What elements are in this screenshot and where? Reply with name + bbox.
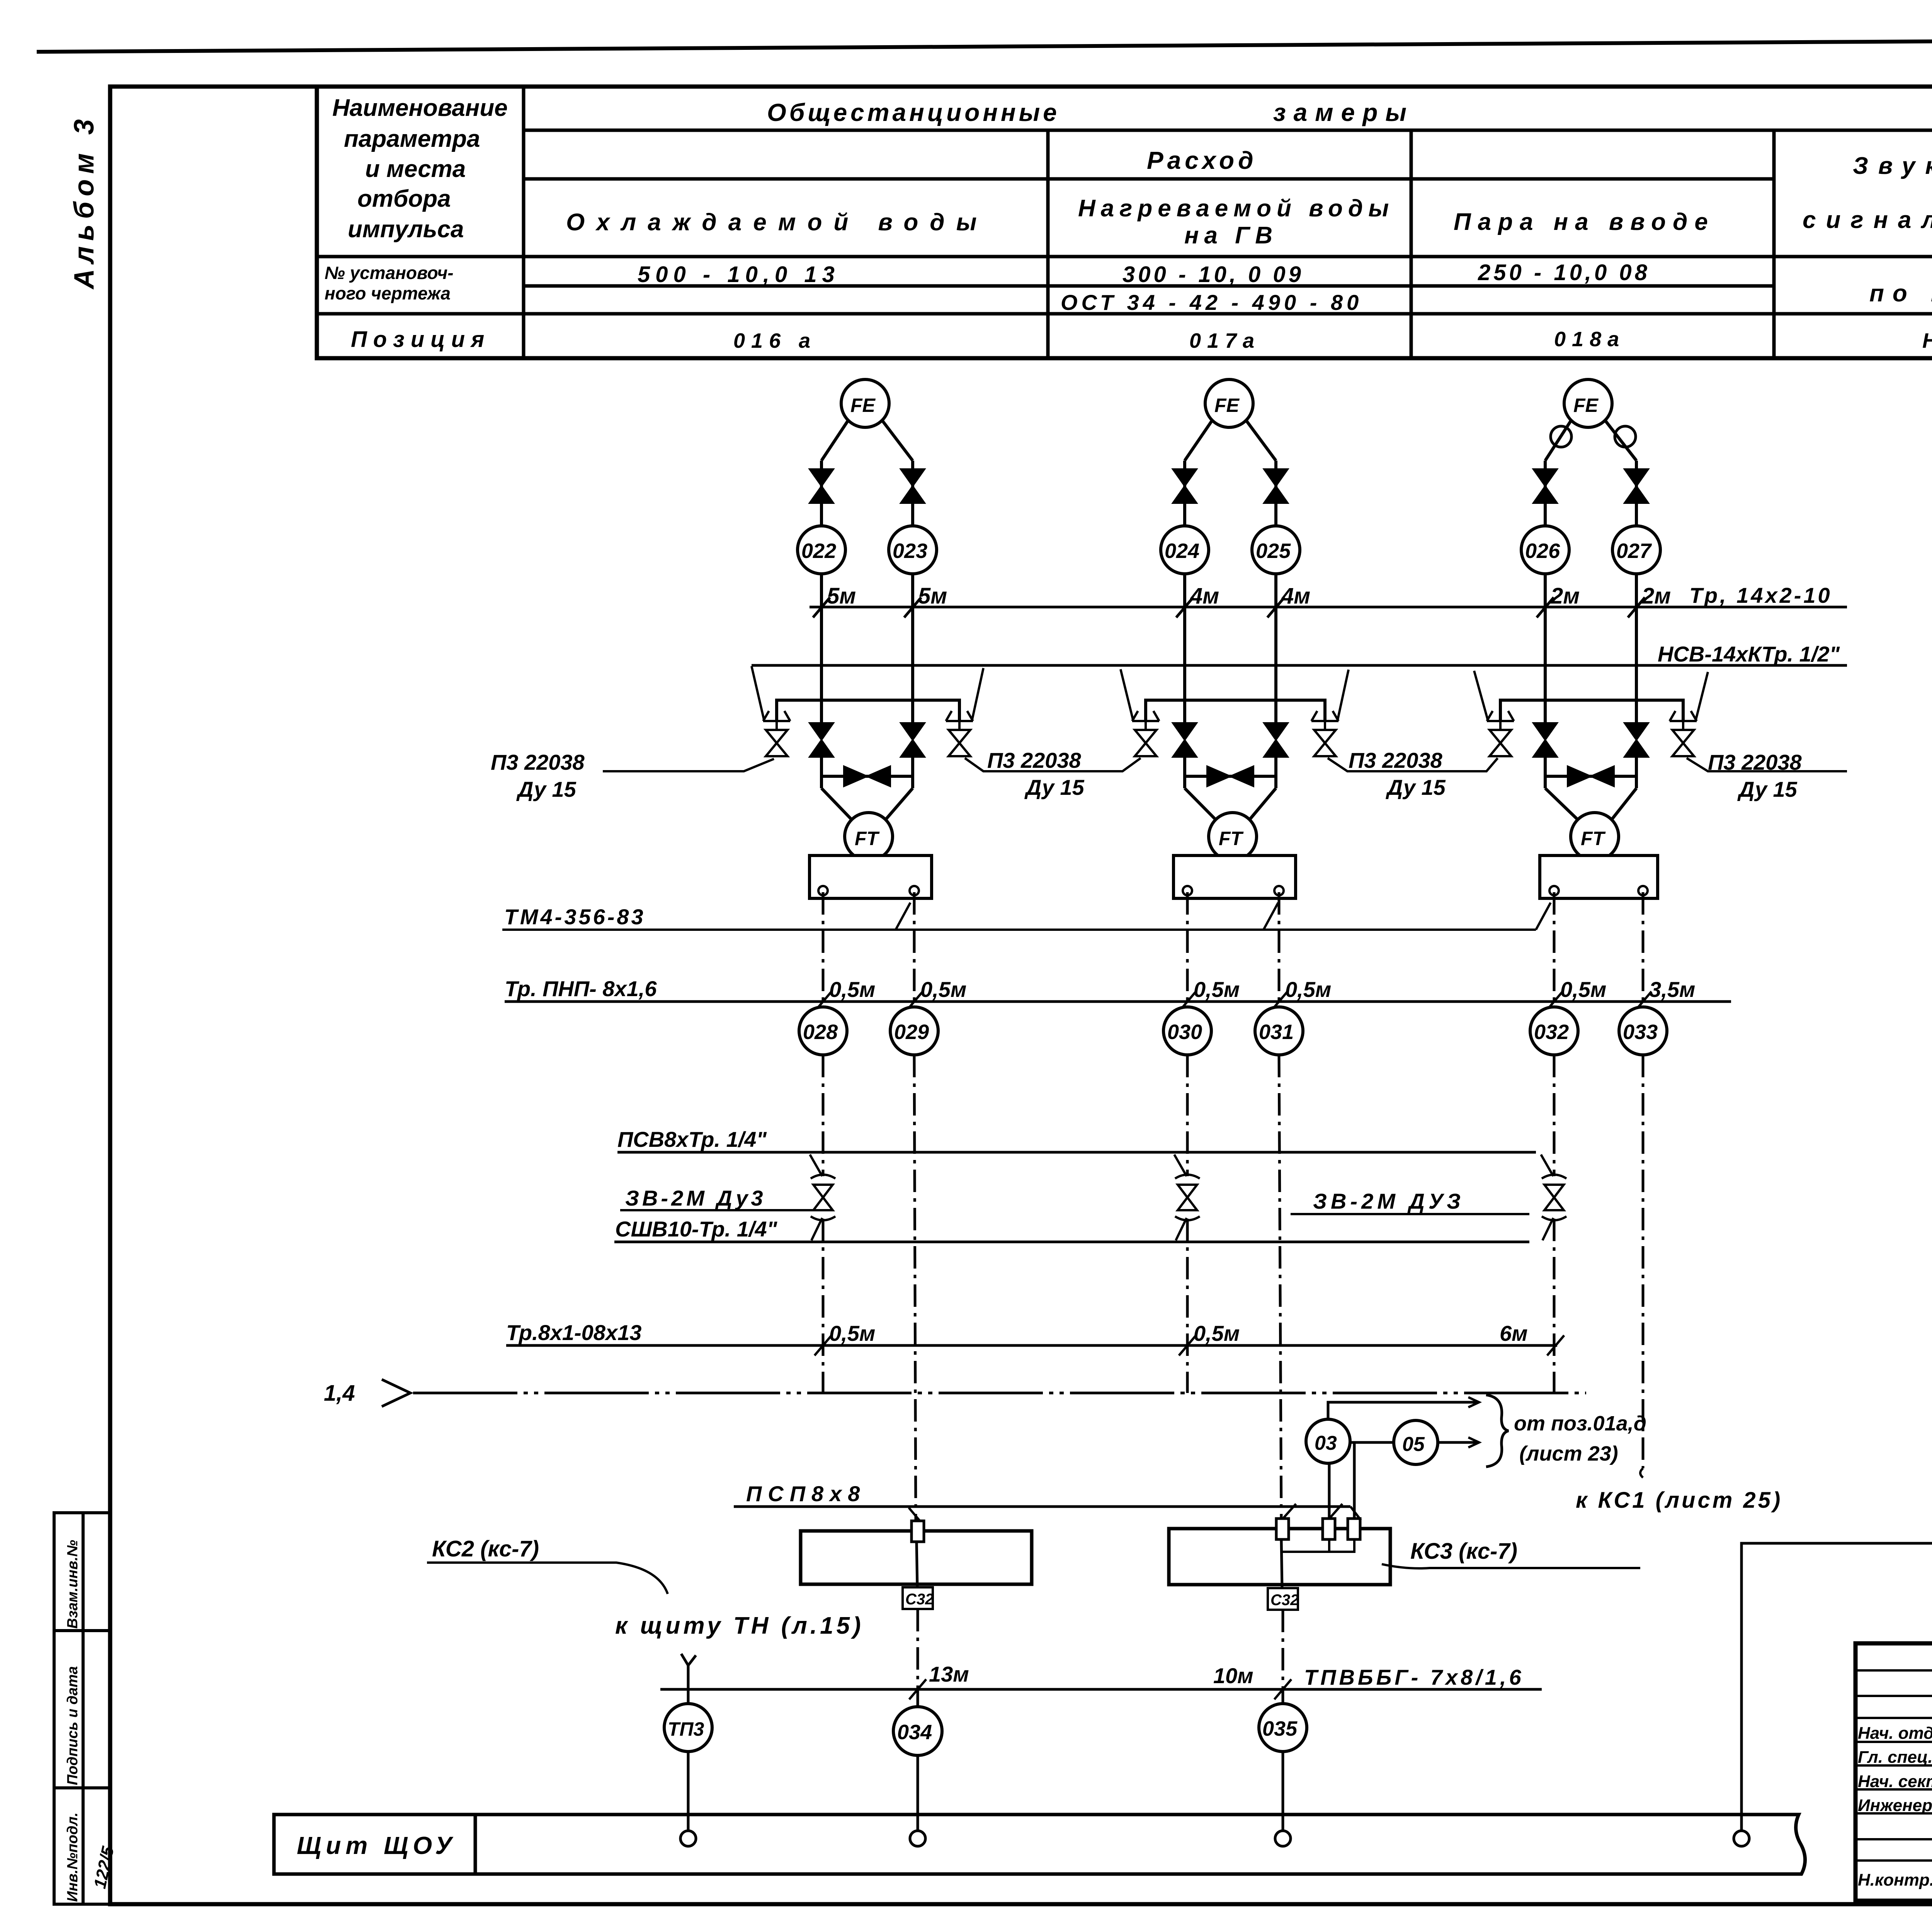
scan top edge line <box>37 37 1932 52</box>
impulse valve P3-22038 right unit 1 <box>946 711 973 721</box>
svg-text:FE: FE <box>1573 395 1599 416</box>
svg-text:025: 025 <box>1256 539 1291 563</box>
crossing tick on line L1 at 3302 <box>1267 597 1284 617</box>
wire above valve 2130 <box>822 1055 825 1176</box>
flow transmitter FT unit 2 <box>1209 813 1257 861</box>
wire left branch middle unit 2 <box>1183 574 1186 724</box>
tag S32 under KS2 <box>903 1587 933 1609</box>
svg-text:05: 05 <box>1402 1433 1425 1456</box>
svg-text:Наименование: Наименование <box>332 95 508 121</box>
instrument circle TP3 <box>664 1704 712 1752</box>
wire left branch middle unit 1 <box>820 574 823 724</box>
wire left branch lower unit 2 <box>1183 757 1186 788</box>
wire 029 down to KS2 terminal <box>914 1055 916 1522</box>
transmitter terminal box unit 3 <box>1540 855 1658 898</box>
instrument circle 05 <box>1394 1420 1438 1464</box>
squiggle end of 033 wire <box>1640 1468 1643 1478</box>
svg-text:ного чертежа: ного чертежа <box>325 283 451 303</box>
cable line PSP8x8 <box>734 1505 1350 1508</box>
wire 034 to shchit <box>917 1755 919 1831</box>
wire from box to circle 031 <box>1278 892 1281 1007</box>
svg-text:Пара на вводе: Пара на вводе <box>1454 209 1715 235</box>
terminal circle 035 on panel <box>1275 1831 1291 1846</box>
svg-text:FT: FT <box>1219 828 1244 849</box>
instrument circle 031 <box>1255 1007 1303 1055</box>
wire FE to left branch unit 3 <box>1545 420 1571 461</box>
flow element FE unit 2 <box>1205 379 1253 427</box>
lower shutoff valve on left branch unit 3 <box>1533 723 1557 757</box>
instrument circle 026 <box>1521 526 1569 574</box>
terminal circle TP3 on panel <box>680 1831 696 1846</box>
crossing tick on Tr.8x1 line at 2130 <box>815 1335 832 1355</box>
equalizer line unit 3 <box>1545 775 1636 778</box>
svg-text:0,5м: 0,5м <box>1194 977 1240 1002</box>
crossing tick on Tr.PNP line at 3310 <box>1270 992 1287 1012</box>
flow element FE unit 3 <box>1564 379 1612 427</box>
crossing tick 13m <box>909 1679 926 1699</box>
crossing tick on line L1 at 3999 <box>1537 597 1554 617</box>
svg-text:Тр, 14х2-10: Тр, 14х2-10 <box>1689 583 1832 607</box>
wire from box to circle 030 <box>1186 892 1189 1007</box>
instrument circle 022 <box>798 526 845 574</box>
valve on right branch unit 2 <box>1264 469 1288 503</box>
curly bracket <box>1486 1395 1509 1467</box>
svg-text:Общестанционные: Общестанционные <box>767 99 1060 126</box>
arrow to shchit TN <box>681 1654 696 1704</box>
svg-text:016 а: 016 а <box>733 329 816 352</box>
svg-text:022: 022 <box>801 539 836 563</box>
svg-text:импульса: импульса <box>348 216 464 243</box>
svg-text:ТПВББГ- 7х8/1,6: ТПВББГ- 7х8/1,6 <box>1304 1665 1524 1689</box>
wire 035 to shchit <box>1282 1752 1284 1831</box>
instrument circle 024 <box>1161 526 1209 574</box>
wire FE to right branch unit 1 <box>882 420 913 461</box>
svg-text:Нач. отд.: Нач. отд. <box>1858 1724 1932 1743</box>
svg-text:ЗВ-2М Ду3: ЗВ-2М Ду3 <box>625 1186 766 1210</box>
svg-text:Ду 15: Ду 15 <box>1386 775 1446 799</box>
wire route to panel <box>1742 1543 1932 1831</box>
lower shutoff valve on left branch unit 2 <box>1173 723 1197 757</box>
svg-text:4м: 4м <box>1281 583 1310 609</box>
lower shutoff valve on right branch unit 2 <box>1264 723 1288 757</box>
svg-text:сигнализация: сигнализация <box>1803 207 1932 233</box>
sampling valve ZV-2M at 3073 <box>1178 1185 1197 1210</box>
drop wire from NSV collector to valve v1L <box>752 666 764 719</box>
valve on left branch unit 2 <box>1173 469 1197 503</box>
equalizer line unit 2 <box>1185 775 1276 778</box>
svg-text:2м: 2м <box>1550 583 1580 609</box>
crossing tick on line L1 at 2126 <box>813 597 830 617</box>
wire TP3 to shchit <box>687 1752 690 1831</box>
svg-text:13м: 13м <box>929 1662 969 1686</box>
svg-text:замеры: замеры <box>1273 99 1414 126</box>
wire converge left to FT unit 1 <box>821 788 852 820</box>
drop wire from NSV collector to valve v3L <box>1474 671 1488 719</box>
svg-text:Нач. сект.: Нач. сект. <box>1858 1772 1932 1791</box>
drop wire from NSV collector to valve v2R <box>1338 670 1349 719</box>
svg-text:от поз.01а,д: от поз.01а,д <box>1514 1412 1646 1435</box>
svg-text:300 - 10, 0 09: 300 - 10, 0 09 <box>1122 262 1304 287</box>
equalizer bowtie valve unit 1 <box>844 766 890 786</box>
wire left branch lower unit 3 <box>1544 757 1547 788</box>
svg-text:НА1: НА1 <box>1922 329 1932 352</box>
svg-text:Ду 15: Ду 15 <box>1024 775 1085 799</box>
instrument circle 033 <box>1619 1007 1667 1055</box>
drop wire from NSV collector to valve v3R <box>1696 672 1708 719</box>
instrument circle 025 <box>1252 526 1300 574</box>
crossing tick on line L1 at 2362 <box>904 597 921 617</box>
svg-text:Инв.№подл.: Инв.№подл. <box>65 1813 81 1902</box>
diagonal jog into valve at 2130 <box>810 1155 822 1176</box>
svg-text:на ГВ: на ГВ <box>1184 222 1278 249</box>
wire right branch middle unit 2 <box>1274 574 1277 724</box>
trunk line 1,4 <box>413 1392 1586 1395</box>
wire 033 down to k KS1 <box>1642 1055 1645 1468</box>
impulse valve P3-22038 left unit 2 <box>1132 711 1159 721</box>
equalizer bowtie valve unit 3 <box>1568 766 1614 786</box>
svg-text:1,4: 1,4 <box>324 1381 355 1406</box>
svg-text:3,5м: 3,5м <box>1649 977 1695 1002</box>
svg-text:031: 031 <box>1259 1020 1294 1044</box>
svg-text:С32: С32 <box>1270 1592 1299 1609</box>
junction box KS2 <box>801 1531 1032 1584</box>
svg-text:(лист 23): (лист 23) <box>1519 1442 1618 1465</box>
svg-text:ТП3: ТП3 <box>668 1718 704 1740</box>
svg-text:Взам.инв.№: Взам.инв.№ <box>65 1540 81 1629</box>
wire converge right to FT unit 2 <box>1250 788 1276 820</box>
wire FE to right branch unit 2 <box>1246 420 1276 461</box>
cable line PSV8xTr.1/4 <box>617 1151 1536 1154</box>
svg-text:0,5м: 0,5м <box>1560 977 1606 1002</box>
svg-text:4м: 4м <box>1190 583 1219 609</box>
svg-text:03: 03 <box>1315 1432 1337 1454</box>
wire FE to left branch unit 2 <box>1185 420 1212 461</box>
equalizer line unit 1 <box>821 775 913 778</box>
svg-text:Тр.8х1-08х13: Тр.8х1-08х13 <box>506 1320 641 1345</box>
impulse valve P3-22038 right unit 2 <box>1311 711 1338 721</box>
wire S32 KS3 down to 035 <box>1282 1610 1284 1704</box>
svg-text:ТМ4-356-83: ТМ4-356-83 <box>504 905 646 929</box>
diagonal jog into valve at 4022 <box>1541 1155 1553 1176</box>
impulse valve P3-22038 left unit 3 <box>1487 711 1514 721</box>
svg-text:0,5м: 0,5м <box>829 977 875 1002</box>
wire below valve 3073 <box>1186 1219 1189 1393</box>
svg-text:5м: 5м <box>918 583 947 609</box>
svg-text:FE: FE <box>1214 395 1240 416</box>
wire left branch upper unit 2 <box>1183 461 1186 526</box>
svg-text:0,5м: 0,5м <box>1194 1321 1240 1345</box>
svg-text:Подпись и дата: Подпись и дата <box>65 1666 81 1785</box>
svg-text:С32: С32 <box>905 1591 934 1608</box>
crossing tick on Tr.8x1 line at 3073 <box>1179 1335 1196 1355</box>
svg-text:028: 028 <box>803 1020 838 1044</box>
cable line 13m 10m <box>660 1688 1542 1691</box>
flow transmitter FT unit 1 <box>845 813 893 861</box>
svg-text:017а: 017а <box>1189 329 1260 352</box>
instrument circle 023 <box>889 526 937 574</box>
drop wire from NSV collector to valve v2L <box>1121 669 1133 719</box>
leader tick to box 2 <box>1264 903 1278 930</box>
instrument circle 027 <box>1612 526 1660 574</box>
svg-text:023: 023 <box>893 539 927 563</box>
terminal rect 1 on KS3 <box>1276 1519 1289 1539</box>
junction box KS3 <box>1169 1529 1390 1585</box>
measurement table <box>317 87 1932 358</box>
wire right branch lower unit 3 <box>1635 757 1638 788</box>
wire right branch middle unit 3 <box>1635 574 1638 724</box>
svg-text:Расход: Расход <box>1147 146 1257 174</box>
drop wire from NSV collector to valve v1R <box>972 668 983 719</box>
svg-text:FT: FT <box>855 828 880 849</box>
svg-text:КС3 (кс-7): КС3 (кс-7) <box>1410 1539 1517 1564</box>
svg-text:0,5м: 0,5м <box>920 977 966 1002</box>
svg-text:Инженер: Инженер <box>1858 1796 1932 1815</box>
collector line NSV-14xKTr <box>752 664 1847 667</box>
terminal circle right in box unit 2 <box>1274 886 1284 895</box>
svg-text:параметра: параметра <box>344 126 480 152</box>
leader tick to box 1 <box>896 903 910 930</box>
diagonal tick KS3 terminal 2 <box>1330 1504 1342 1518</box>
wire from box to circle 028 <box>822 892 825 1007</box>
wire 03 to 05 <box>1350 1441 1394 1444</box>
svg-text:FE: FE <box>850 395 876 416</box>
flow element FE unit 1 <box>841 379 889 427</box>
terminal circle 034 on panel <box>910 1831 925 1846</box>
sampling valve ZV-2M at 4022 <box>1544 1185 1564 1210</box>
pi collector line unit 3 <box>1500 700 1683 721</box>
wire below valve 2130 <box>822 1219 825 1393</box>
pi collector line unit 1 <box>777 700 959 721</box>
panel box Shchit SchOU <box>274 1815 1805 1874</box>
svg-text:НСВ-14хКТр. 1/2": НСВ-14хКТр. 1/2" <box>1658 642 1840 666</box>
crossing tick on line L1 at 4235 <box>1628 597 1645 617</box>
svg-text:6м: 6м <box>1500 1321 1528 1345</box>
wire converge left to FT unit 2 <box>1185 788 1216 820</box>
wire above valve 4022 <box>1553 1055 1556 1176</box>
chevron on 1,4 line <box>382 1379 410 1406</box>
wire 031 down to KS3 terminal <box>1279 1055 1281 1519</box>
terminal circle left in box unit 2 <box>1183 886 1192 895</box>
svg-text:Гл. спец.: Гл. спец. <box>1858 1748 1932 1767</box>
svg-text:10м: 10м <box>1213 1663 1253 1688</box>
cable line Tr.PNP-8x1,6 <box>505 1000 1731 1003</box>
crossing tick on Tr.8x1 line at 4026 <box>1547 1335 1564 1355</box>
svg-text:018а: 018а <box>1554 328 1625 351</box>
transmitter terminal box unit 2 <box>1173 855 1296 898</box>
cable line Tr.8x1-08x13 <box>506 1344 1557 1347</box>
terminal rect 2 on KS3 <box>1323 1519 1335 1539</box>
wire from box to circle 033 <box>1642 892 1645 1007</box>
svg-text:Позиция: Позиция <box>351 327 490 352</box>
left margin stamp table <box>54 1513 110 1904</box>
diagonal tick KS3 terminal 1 <box>1284 1504 1296 1518</box>
svg-text:ЗВ-2М ДУЗ: ЗВ-2М ДУЗ <box>1313 1189 1464 1213</box>
svg-text:ПСП8х8: ПСП8х8 <box>746 1481 866 1506</box>
valve on right branch unit 3 <box>1624 469 1648 503</box>
terminal circle 522 on panel <box>1734 1831 1749 1846</box>
lower shutoff valve on left branch unit 1 <box>810 723 833 757</box>
cable line SShV10-Tr.1/4 <box>614 1241 1529 1243</box>
wire left branch middle unit 3 <box>1544 574 1547 724</box>
svg-text:027: 027 <box>1616 539 1652 563</box>
svg-text:№ установоч-: № установоч- <box>325 263 454 283</box>
crossing tick on Tr.PNP line at 4022 <box>1546 992 1563 1012</box>
diagonal into KS2 terminal <box>909 1508 921 1522</box>
svg-text:Тр. ПНП- 8х1,6: Тр. ПНП- 8х1,6 <box>505 976 657 1001</box>
wire FE to left branch unit 1 <box>821 420 848 461</box>
terminal circle right in box unit 1 <box>910 886 919 895</box>
wire 03 down to terminal <box>1328 1463 1331 1519</box>
impulse valve P3-22038 right unit 3 <box>1670 711 1697 721</box>
leader tick to box 3 <box>1536 903 1551 930</box>
crossing tick on Tr.PNP line at 4252 <box>1634 992 1651 1012</box>
svg-text:П3 22038: П3 22038 <box>987 748 1082 772</box>
svg-text:5м: 5м <box>827 583 856 609</box>
pi collector line unit 2 <box>1146 700 1325 721</box>
leader line TM4-356-83 under boxes <box>502 929 1536 931</box>
svg-text:П3 22038: П3 22038 <box>1349 748 1443 772</box>
svg-text:024: 024 <box>1165 539 1199 563</box>
instrument circle 030 <box>1163 1007 1211 1055</box>
svg-text:032: 032 <box>1534 1020 1569 1044</box>
svg-text:СШВ10-Тр. 1/4": СШВ10-Тр. 1/4" <box>615 1217 778 1241</box>
crossing tick on Tr.PNP line at 2130 <box>815 992 832 1012</box>
crossing tick on Tr.PNP line at 3073 <box>1179 992 1196 1012</box>
equalizer bowtie valve unit 2 <box>1207 766 1253 786</box>
tag S32 under KS3 <box>1268 1588 1298 1610</box>
svg-text:Ду 15: Ду 15 <box>516 777 577 801</box>
flow transmitter FT unit 3 <box>1571 813 1619 861</box>
instrument circle 03 <box>1306 1419 1350 1463</box>
diagonal into KS3 terminal 3 <box>1350 1507 1361 1520</box>
main title block <box>1855 1643 1932 1901</box>
wire converge left to FT unit 3 <box>1545 788 1578 820</box>
svg-text:033: 033 <box>1623 1020 1658 1044</box>
terminal circle right in box unit 3 <box>1638 886 1648 895</box>
wire left branch lower unit 1 <box>820 757 823 788</box>
svg-text:к щиту ТН (л.15): к щиту ТН (л.15) <box>615 1612 864 1639</box>
terminal circle left in box unit 1 <box>818 886 828 895</box>
svg-text:Охлаждаемой воды: Охлаждаемой воды <box>566 209 988 236</box>
wire converge right to FT unit 1 <box>886 788 913 820</box>
wire FE to right branch unit 3 <box>1605 420 1636 461</box>
svg-text:034: 034 <box>897 1721 932 1744</box>
wire right branch lower unit 1 <box>911 757 914 788</box>
crossing tick on line L1 at 3066 <box>1176 597 1193 617</box>
wire left branch upper unit 1 <box>820 461 823 526</box>
wire right branch upper unit 2 <box>1274 461 1277 526</box>
svg-text:и места: и места <box>365 156 466 182</box>
svg-text:отбора: отбора <box>357 185 451 212</box>
collector line Tr.14x2-10 <box>810 606 1847 609</box>
crossing tick on Tr.PNP line at 2366 <box>906 992 923 1012</box>
wire through KS3 <box>1281 1539 1282 1588</box>
svg-text:2м: 2м <box>1641 583 1671 609</box>
wire right branch upper unit 1 <box>911 461 914 526</box>
valve on left branch unit 3 <box>1533 469 1557 503</box>
terminal rect on KS2 <box>912 1521 924 1542</box>
instrument circle 035 <box>1259 1704 1307 1752</box>
svg-text:030: 030 <box>1167 1020 1202 1044</box>
wire right branch middle unit 1 <box>911 574 914 724</box>
svg-text:Н.контр.: Н.контр. <box>1858 1871 1932 1889</box>
wire 05 branch down to terminal <box>1353 1442 1356 1519</box>
svg-text:к КС1 (лист 25): к КС1 (лист 25) <box>1576 1488 1782 1513</box>
valve on right branch unit 1 <box>901 469 925 503</box>
lower shutoff valve on right branch unit 3 <box>1624 723 1648 757</box>
svg-text:ПСВ8хТр. 1/4": ПСВ8хТр. 1/4" <box>617 1127 767 1151</box>
seal pot circles unit 3 <box>1551 426 1571 447</box>
diagonal jog into valve at 3073 <box>1174 1155 1187 1176</box>
wire S32 KS2 down to 034 <box>917 1609 919 1707</box>
wire left branch upper unit 3 <box>1544 461 1547 526</box>
sampling valve ZV-2M at 2130 <box>813 1185 833 1210</box>
wire below valve 4022 <box>1553 1219 1556 1393</box>
terminal circle left in box unit 3 <box>1549 886 1559 895</box>
svg-text:FT: FT <box>1581 828 1606 849</box>
valve on left branch unit 1 <box>810 469 833 503</box>
crossing tick 10m <box>1274 1679 1291 1699</box>
impulse valve P3-22038 left unit 1 <box>763 711 790 721</box>
terminal rect 3 on KS3 <box>1348 1519 1360 1539</box>
wire through KS2 <box>917 1542 917 1587</box>
wire above valve 3073 <box>1186 1055 1189 1176</box>
svg-text:П3 22038: П3 22038 <box>491 750 585 774</box>
instrument circle 028 <box>799 1007 847 1055</box>
instrument circle 029 <box>890 1007 938 1055</box>
svg-text:Нагреваемой воды: Нагреваемой воды <box>1078 195 1394 222</box>
svg-text:Альбом 3: Альбом 3 <box>69 114 100 290</box>
lower shutoff valve on right branch unit 1 <box>901 723 925 757</box>
wire right branch lower unit 2 <box>1274 757 1277 788</box>
svg-text:по месту: по месту <box>1869 280 1932 307</box>
wire from box to circle 029 <box>913 892 916 1007</box>
transmitter terminal box unit 1 <box>810 855 932 898</box>
svg-text:0,5м: 0,5м <box>829 1321 875 1345</box>
svg-text:КС2 (кс-7): КС2 (кс-7) <box>432 1536 539 1561</box>
svg-text:035: 035 <box>1262 1717 1298 1740</box>
instrument circle 034 <box>893 1707 942 1755</box>
wire converge right to FT unit 3 <box>1612 788 1636 820</box>
svg-text:Ду 15: Ду 15 <box>1737 777 1798 801</box>
svg-text:ОСТ 34 - 42 - 490 - 80: ОСТ 34 - 42 - 490 - 80 <box>1061 290 1362 315</box>
svg-text:029: 029 <box>894 1020 929 1044</box>
svg-text:Щит ЩОУ: Щит ЩОУ <box>297 1832 456 1859</box>
wire 03 top loop to bracket <box>1328 1402 1477 1419</box>
svg-text:250 - 10,0 08: 250 - 10,0 08 <box>1478 260 1650 285</box>
wire right branch upper unit 3 <box>1635 461 1638 526</box>
internal bus in KS3 <box>1282 1539 1354 1552</box>
instrument circle 032 <box>1530 1007 1578 1055</box>
svg-text:Звуковая: Звуковая <box>1853 153 1932 179</box>
wire from box to circle 032 <box>1553 892 1556 1007</box>
svg-text:0,5м: 0,5м <box>1285 977 1331 1002</box>
wire 05 to bracket <box>1438 1441 1477 1444</box>
svg-text:026: 026 <box>1525 539 1560 563</box>
svg-text:500 - 10,0 13: 500 - 10,0 13 <box>638 262 840 287</box>
